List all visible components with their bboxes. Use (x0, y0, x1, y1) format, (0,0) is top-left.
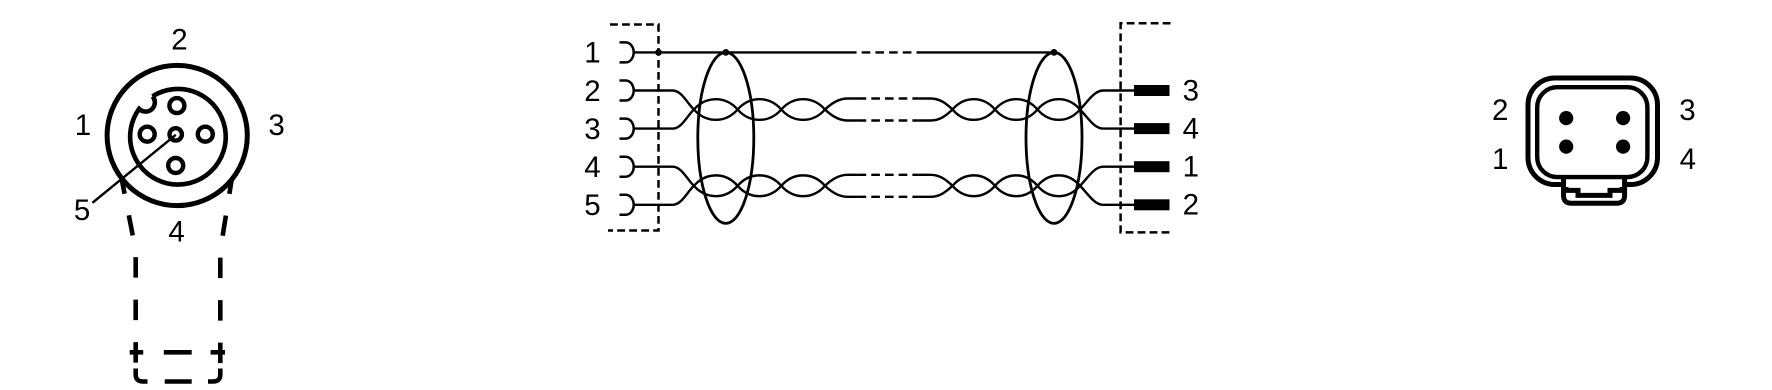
cable entry dashed line segment b (164, 350, 192, 355)
pin 3 socket contact (620, 119, 634, 139)
cable entry dashed line segment a (130, 350, 144, 355)
cable entry dashed line segment c (211, 350, 225, 355)
pin B (socket 3) (1616, 111, 1630, 125)
twisted pair 1 wire a dashed break (858, 97, 919, 99)
twisted pair 2 wire a (pin 4 to terminal 1) (634, 167, 1135, 196)
svg-text:4: 4 (584, 151, 600, 184)
connector J1 body outline left (dashed) (122, 181, 136, 365)
pin 1 contact (left) (140, 127, 155, 142)
twisted pair 1 wire b (pin 3 to terminal 4) (634, 99, 1135, 128)
pin 4 socket contact (620, 157, 634, 177)
shield wire dashed continuation (848, 51, 918, 53)
pin 3 contact (right) (198, 127, 213, 142)
left connector boundary (dashed box) (608, 25, 659, 231)
leader line to pin 5 (92, 135, 175, 203)
pin 5 socket contact (620, 195, 634, 215)
body bottom center dash (165, 379, 192, 384)
svg-text:1: 1 (584, 37, 600, 70)
svg-text:2: 2 (584, 75, 600, 108)
pin C (socket 1) (1559, 140, 1573, 154)
connector J2 inner wall (1537, 87, 1647, 177)
svg-text:1: 1 (1183, 151, 1199, 184)
cable shield left (ellipse) (698, 52, 754, 223)
svg-text:2: 2 (171, 23, 187, 56)
connector J2 latch step profile (1566, 187, 1622, 195)
pin 4 contact (bottom) (168, 158, 183, 173)
connector J1 M12 face outer ring (107, 65, 247, 205)
svg-text:3: 3 (1183, 74, 1199, 107)
shield wire right section (918, 51, 1054, 53)
connector J1 insert ring with keyway notch (130, 89, 226, 185)
terminal 3 blade contact (1134, 85, 1170, 96)
right connector boundary (dashed box, open right) (1121, 23, 1171, 232)
body bottom-right corner dash (208, 369, 220, 382)
twisted pair 1 wire b dashed break (858, 119, 919, 121)
junction node at boundary (655, 49, 662, 56)
shield wire from pin 1 (634, 51, 848, 53)
terminal 4 blade contact (1134, 123, 1170, 134)
svg-text:1: 1 (75, 109, 91, 142)
svg-text:2: 2 (1183, 189, 1199, 222)
pin A (socket 2) (1559, 111, 1573, 125)
svg-text:3: 3 (584, 113, 600, 146)
twisted pair 2 wire a dashed break (858, 174, 919, 176)
pin 2 contact (top) (169, 98, 184, 113)
svg-text:4: 4 (1680, 143, 1696, 176)
pin 2 socket contact (620, 81, 634, 101)
junction node shield left (722, 49, 729, 56)
svg-text:2: 2 (1492, 94, 1508, 127)
svg-text:3: 3 (268, 109, 284, 142)
svg-text:1: 1 (1492, 143, 1508, 176)
junction node shield right (1051, 49, 1058, 56)
svg-text:5: 5 (584, 189, 600, 222)
svg-text:3: 3 (1679, 94, 1695, 127)
cable shield right (ellipse) (1026, 52, 1082, 223)
svg-text:5: 5 (74, 194, 90, 227)
terminal 1 blade contact (1134, 161, 1170, 172)
svg-text:4: 4 (1183, 113, 1199, 146)
connector J2 outer shell (1528, 78, 1658, 185)
pin 5 contact (center) (170, 128, 182, 140)
twisted pair 2 wire b dashed break (858, 196, 919, 198)
terminal 2 blade contact (1134, 199, 1170, 210)
twisted pair 2 wire b (pin 5 to terminal 2) (634, 175, 1135, 204)
twisted pair 1 wire a (pin 2 to terminal 3) (634, 91, 1135, 120)
body bottom-left corner dash (136, 369, 148, 382)
pin D (socket 4) (1616, 140, 1630, 154)
pin 1 socket contact (620, 42, 634, 62)
connector J1 body outline right (dashed) (220, 181, 231, 365)
connector J2 latch tab (1564, 177, 1625, 203)
svg-text:4: 4 (168, 215, 184, 248)
